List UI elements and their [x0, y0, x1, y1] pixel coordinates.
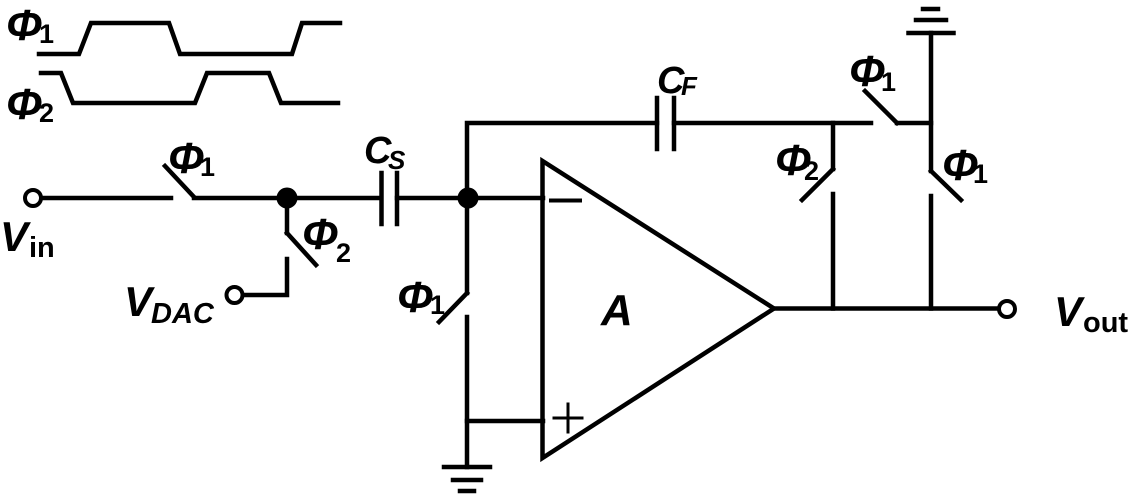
svg-text:1: 1: [430, 290, 445, 320]
ground (bottom): [444, 467, 490, 491]
wire ground vertical (top right): [929, 33, 934, 171]
wire switch S1 to capacitor CS: [194, 196, 381, 201]
clock label Phi1: [6, 1, 54, 50]
label Phi1 (S6): [942, 141, 988, 190]
op-amp noninverting input marker (plus): [554, 404, 582, 432]
wire output line: [774, 306, 996, 311]
switch Phi1 S5 (top right): [865, 91, 897, 123]
svg-text:Φ: Φ: [168, 134, 204, 183]
svg-text:1: 1: [881, 67, 896, 97]
svg-text:Φ: Φ: [6, 80, 42, 129]
op-amp U1 (gain A): [543, 161, 775, 458]
svg-text:S: S: [388, 145, 406, 175]
svg-text:DAC: DAC: [151, 298, 215, 330]
switch Phi2 S2 (DAC): [287, 233, 316, 265]
svg-text:2: 2: [39, 98, 54, 128]
clock waveform Phi1: [39, 23, 340, 54]
clock label Phi2: [6, 80, 54, 129]
svg-text:2: 2: [336, 238, 351, 268]
switch Phi1 S6 (output reset): [931, 171, 961, 200]
svg-text:F: F: [681, 71, 698, 101]
clock waveform Phi2: [41, 73, 338, 103]
wire capacitor CS to op-amp inverting input: [397, 196, 543, 201]
svg-text:Φ: Φ: [302, 210, 338, 259]
label Vout: [1054, 288, 1128, 339]
svg-text:V: V: [1054, 288, 1085, 335]
label A (op-amp gain): [600, 286, 633, 335]
label Phi2 (S2): [302, 210, 351, 268]
terminal Vin: [25, 190, 41, 206]
switch Phi2 S4 (feedback): [802, 169, 833, 200]
svg-text:Φ: Φ: [6, 1, 42, 50]
wire feedback left (summing node up and right to CF): [467, 123, 657, 198]
svg-text:Φ: Φ: [849, 47, 885, 96]
wire summing node down to switch S3: [465, 198, 470, 293]
capacitor CF: [657, 98, 674, 149]
wire switch S4 to output line: [831, 194, 836, 309]
terminal Vout: [999, 301, 1015, 317]
svg-text:V: V: [0, 213, 31, 260]
label Phi1 (S1): [168, 134, 215, 183]
svg-text:out: out: [1083, 307, 1128, 339]
wire capacitor CF to switch S5: [674, 121, 871, 126]
switch Phi1 S1 (input sampling): [165, 166, 194, 197]
wire CF right plate down branch (Phi2): [831, 123, 836, 169]
label Phi1 (S5): [849, 47, 896, 97]
svg-text:A: A: [600, 286, 633, 335]
svg-text:Φ: Φ: [397, 273, 433, 322]
svg-text:1: 1: [973, 159, 988, 189]
wire switch S3 to ground: [465, 317, 470, 467]
ground (inverted, top right): [909, 9, 954, 33]
wire op-amp noninverting input: [467, 419, 543, 424]
op-amp inverting input marker (minus): [551, 199, 580, 203]
wire node A down to switch S2: [285, 198, 290, 233]
svg-text:in: in: [29, 232, 55, 264]
label Phi2 (S4): [775, 136, 819, 186]
wire switch S6 to output line: [929, 196, 934, 309]
terminal VDAC: [227, 287, 243, 303]
node A (input junction dot): [277, 188, 298, 209]
svg-text:1: 1: [39, 19, 54, 49]
label CS: [364, 130, 406, 175]
label Vin: [0, 213, 55, 264]
wire switch S5 to ground vertical: [897, 121, 931, 126]
svg-text:2: 2: [804, 156, 819, 186]
capacitor CS: [382, 173, 398, 224]
label CF: [657, 60, 698, 102]
node summing (dot at inverting input): [458, 188, 479, 209]
switch Phi1 S3 (summing node reset): [439, 293, 467, 322]
wire Vin to switch S1: [43, 196, 171, 201]
svg-text:1: 1: [200, 152, 215, 182]
label VDAC: [124, 278, 215, 330]
wire switch S2 to VDAC terminal: [245, 259, 287, 295]
label Phi1 (S3): [397, 273, 445, 322]
